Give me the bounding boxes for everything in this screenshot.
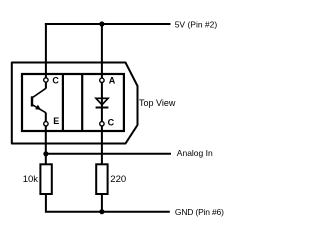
junction: 5V rail / LED anode wire [99, 21, 104, 26]
pin C of D1 (open circle) [100, 122, 104, 126]
wire: left vertical (emitter branch) lower segment to resistor R1 [45, 113, 47, 165]
junction: emitter node / Analog In [43, 151, 48, 156]
svg-text:Analog In: Analog In [177, 148, 213, 158]
svg-text:220: 220 [110, 174, 126, 185]
package body inner box [22, 74, 124, 131]
pin E of Q1 (open circle) [44, 122, 48, 126]
svg-text:GND (Pin #6): GND (Pin #6) [175, 207, 224, 217]
pin C of Q1 (open circle) [44, 78, 48, 82]
resistor R1 (10k) body [40, 164, 51, 194]
wire: right vertical (LED branch) from 5V rail to resistor R2 [101, 23, 103, 165]
svg-text:E: E [53, 116, 59, 126]
svg-text:C: C [52, 76, 59, 86]
svg-text:5V (Pin #2): 5V (Pin #2) [175, 19, 218, 29]
svg-text:A: A [109, 76, 116, 86]
wire: Analog In stub from emitter node to label [45, 153, 171, 155]
svg-text:Top View: Top View [139, 98, 176, 108]
resistor R2 (220) body [96, 164, 107, 194]
package divider line 1 [62, 74, 64, 131]
wire: 5V rail from left wire corner to label [45, 23, 171, 25]
package divider line 2 [81, 74, 83, 131]
svg-text:C: C [108, 117, 115, 127]
wire: left vertical (collector branch) upper segment [45, 23, 47, 89]
junction: GND rail / R2 [99, 209, 104, 214]
package outline U1 (QRD1114 reflective sensor, top view) [12, 63, 138, 144]
wire: left branch from R1 bottom down and right along GND [45, 194, 170, 212]
infrared LED D1 [96, 98, 109, 107]
svg-text:10k: 10k [23, 174, 39, 185]
phototransistor Q1 [32, 88, 46, 112]
pin A of D1 (open circle) [100, 78, 104, 82]
wire: right branch from R2 bottom to GND rail [101, 194, 103, 212]
